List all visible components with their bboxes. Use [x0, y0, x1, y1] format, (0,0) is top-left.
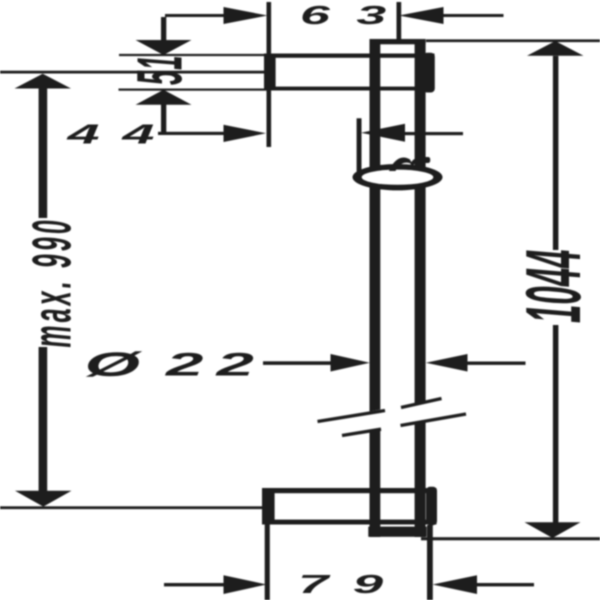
svg-text:1044: 1044 — [510, 250, 597, 323]
svg-text:max. 990: max. 990 — [22, 217, 83, 347]
svg-text:2: 2 — [215, 347, 254, 383]
svg-text:4 4: 4 4 — [66, 119, 158, 150]
svg-text:51: 51 — [125, 55, 196, 85]
svg-text:7 9: 7 9 — [298, 570, 388, 599]
svg-text:2: 2 — [165, 347, 204, 383]
svg-text:6 3: 6 3 — [300, 1, 392, 30]
svg-text:Ø: Ø — [85, 345, 144, 383]
